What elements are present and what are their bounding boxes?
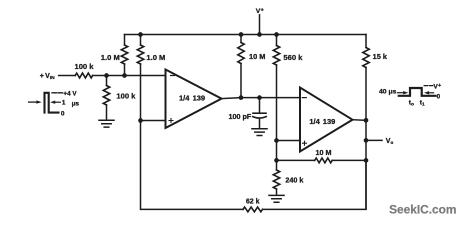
svg-text:10 M: 10 M — [316, 148, 332, 157]
capacitor C 100pF — [229, 95, 267, 128]
wire op-amp1 output line — [222, 98, 301, 99]
node: + input junction on 1.0M line — [138, 118, 143, 123]
resistor R 10M feedback — [277, 148, 369, 163]
svg-text:1.0 M: 1.0 M — [146, 53, 165, 62]
svg-text:15 k: 15 k — [373, 52, 388, 61]
resistor R 62k — [243, 198, 263, 211]
resistor R 560k — [273, 35, 303, 141]
node: 100k shunt junction — [104, 73, 109, 78]
svg-text:+VIN: +VIN — [40, 73, 55, 81]
node: 10M feedback left junction — [274, 158, 279, 163]
op-amp U2 1/4 139 — [300, 88, 353, 152]
resistor R 1.0M right — [137, 35, 165, 121]
wire 560k node to op-amp2 + input — [277, 140, 301, 142]
svg-text:1: 1 — [62, 100, 66, 107]
svg-text:10 M: 10 M — [249, 52, 265, 61]
svg-text:to: to — [409, 100, 414, 108]
svg-text:240 k: 240 k — [285, 175, 303, 184]
svg-text:0: 0 — [437, 93, 441, 100]
node: rail junction 10M — [239, 32, 244, 37]
input pulse waveform symbol — [29, 90, 80, 117]
svg-text:1/4: 1/4 — [309, 117, 320, 126]
svg-text:1.0 M: 1.0 M — [101, 53, 120, 62]
resistor R 240k to ground — [273, 141, 303, 195]
svg-text:μs: μs — [72, 100, 80, 107]
svg-text:+4 V: +4 V — [63, 90, 77, 97]
node: 10M bottom junction — [239, 95, 244, 100]
svg-text:Vo: Vo — [386, 138, 394, 145]
node: rail junction V+ — [257, 32, 262, 37]
resistor R 100k shunt to ground — [103, 76, 136, 120]
V+ supply label — [256, 8, 264, 35]
svg-text:40 μs: 40 μs — [379, 89, 397, 96]
svg-text:100 pF: 100 pF — [229, 112, 252, 121]
svg-text:100 k: 100 k — [116, 91, 136, 100]
node: op-amp2 + input junction — [274, 138, 279, 143]
wire from VIN — [59, 75, 75, 77]
resistor R 15k — [363, 35, 388, 210]
resistor R 100k input — [74, 62, 94, 78]
node: 1.0M left bottom junction — [122, 73, 127, 78]
output pulse waveform symbol — [379, 83, 441, 107]
svg-text:139: 139 — [323, 117, 336, 126]
node: rail junction 560k — [274, 32, 279, 37]
ground for 100k shunt — [99, 120, 114, 127]
svg-text:1/4: 1/4 — [179, 93, 190, 102]
svg-text:t1: t1 — [420, 100, 425, 108]
svg-text:139: 139 — [193, 93, 206, 102]
resistor R 1.0M left — [101, 35, 128, 76]
node: output junction on 15k line — [364, 118, 369, 123]
svg-text:V+: V+ — [433, 83, 441, 90]
ground for 100pF — [252, 129, 267, 136]
wire bottom rail with 62k — [141, 121, 367, 210]
wire op-amp1 + input — [141, 120, 166, 122]
svg-text:560 k: 560 k — [283, 53, 303, 62]
ground for 240k — [269, 195, 284, 202]
wire top V+ rail — [125, 34, 367, 36]
wire op-amp2 output — [353, 119, 367, 122]
svg-text:62 k: 62 k — [246, 198, 260, 205]
resistor R 10M pull-up — [238, 35, 266, 98]
svg-text:V+: V+ — [256, 8, 264, 15]
svg-text:SeekIC.com: SeekIC.com — [389, 202, 456, 216]
node: rail junction at R2 top — [138, 32, 143, 37]
svg-text:100 k: 100 k — [74, 62, 94, 71]
svg-text:0: 0 — [61, 111, 65, 118]
wire Vo tap — [364, 138, 394, 145]
wire VIN line to op-amp minus input — [93, 75, 166, 77]
op-amp U1 1/4 139 — [166, 70, 222, 129]
